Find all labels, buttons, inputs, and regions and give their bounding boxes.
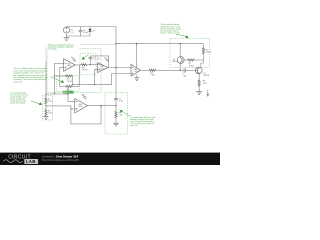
annotation paragraph left 1 (14, 67, 48, 83)
svg-text:0.1 µF: 0.1 µF (94, 59, 100, 61)
wire divider top (45, 94, 47, 98)
annotation box F (integrator stage) (80, 54, 96, 75)
wire OA1 feedback drop (78, 65, 80, 87)
capacitor C7 (182, 68, 195, 77)
svg-text:10 kΩ: 10 kΩ (82, 70, 88, 72)
wire OA1 -in loop down (53, 64, 55, 95)
svg-text:100 Ω: 100 Ω (189, 65, 195, 67)
op-amp OA3 (131, 64, 141, 76)
wire OA2 +in (95, 70, 98, 85)
resistor R3 (149, 69, 183, 77)
svg-text:2N3904: 2N3904 (172, 61, 178, 63)
node divider mid (45, 105, 46, 106)
svg-text:http://circuitlab.com/c6bpe35: http://circuitlab.com/c6bpe35 (42, 158, 79, 162)
resistor R1 (45, 98, 53, 106)
annotation box D (current limiter) (170, 38, 210, 67)
voltage source V1 (63, 27, 74, 34)
capacitor C2 feedback (89, 56, 109, 68)
svg-text:travel safe: travel safe (14, 80, 23, 83)
op-amp OA1 V+ flag (71, 57, 75, 62)
annotation arrow to heater node (120, 110, 131, 117)
annotation label on box A bottom (63, 91, 74, 94)
wire faint left bus (80, 43, 116, 45)
svg-text:10 kΩ: 10 kΩ (48, 101, 53, 103)
wire V1 top (67, 27, 117, 44)
ground below divider (43, 116, 48, 120)
op-amp OA4 (75, 99, 88, 113)
svg-text:2N3904: 2N3904 (203, 75, 209, 77)
ground below R9 (113, 123, 119, 126)
wire V+ rail down to heater RC (115, 44, 117, 97)
annotation box A (oscillator stages) (47, 43, 101, 92)
ground below V1 (64, 36, 70, 40)
svg-text:100 Ω: 100 Ω (206, 52, 212, 54)
wire R5 node down (67, 89, 69, 95)
annotation paragraph bottom (130, 116, 155, 127)
svg-text:10 µF: 10 µF (119, 100, 123, 102)
wire V1 bottom (67, 33, 91, 36)
wire OA1 -in (54, 63, 63, 65)
wire gain node to OA3 +in (73, 74, 131, 85)
op-amp OA2 (98, 63, 108, 73)
wire divider feed (46, 94, 75, 102)
op-amp OA2 V+ flag (105, 57, 109, 61)
svg-text:LF411: LF411 (67, 66, 72, 68)
logo sine wave (4, 160, 23, 163)
svg-text:LAB: LAB (26, 159, 36, 164)
wire OA4 +in loop (71, 106, 101, 124)
resistor R5 (65, 85, 79, 93)
wire divider mid to OA4 + (46, 106, 71, 109)
resistor R9 heater (115, 106, 123, 124)
ground below R8 (196, 92, 202, 95)
annotation box B (feedback resistors) (57, 75, 80, 91)
wire OA3 output (141, 69, 150, 71)
resistor R4 (54, 75, 72, 85)
annotation arrow to box F (82, 55, 89, 60)
wire R5 left (60, 86, 65, 88)
resistor R0 (45, 106, 53, 116)
svg-text:in this loop: in this loop (48, 47, 57, 50)
annotation arrow to R5 box (50, 77, 64, 83)
op-amp OA1 (64, 59, 76, 71)
wire Q1 emitter down (179, 64, 181, 71)
svg-text:heater has settled: heater has settled (10, 102, 25, 105)
logo LAB (24, 159, 38, 164)
wire main bus (116, 43, 204, 45)
svg-text:10 kΩ: 10 kΩ (48, 113, 53, 115)
svg-text:10 Ω: 10 Ω (203, 83, 208, 85)
wire OA3 V+ supply (136, 44, 138, 68)
svg-text:cap is for: cap is for (130, 124, 138, 127)
transistor Q2 (195, 67, 209, 77)
wire OA2 output to OA3 -in (108, 67, 131, 69)
resistor R6 between stages (80, 64, 97, 72)
wire Q1 collector to bus (179, 44, 181, 57)
svg-text:10 µF: 10 µF (83, 32, 89, 34)
wire OA1 output (75, 64, 80, 66)
svg-text:1 kΩ: 1 kΩ (150, 75, 155, 77)
svg-text:10 kΩ: 10 kΩ (67, 81, 73, 83)
node heater junction (115, 105, 116, 106)
footer bar (0, 153, 220, 165)
resistor R2 collector (202, 44, 212, 60)
annotation box C (divider) (43, 96, 53, 120)
annotation arrow to box D (176, 34, 189, 38)
wire OA1 +in (60, 68, 64, 87)
diode D1 (89, 27, 96, 37)
ground below OA3 (134, 75, 139, 81)
capacitor C6 (79, 27, 90, 37)
capacitor C1 heater (114, 97, 123, 106)
arrow flag far right (206, 90, 209, 97)
annotation paragraph left 2 (10, 92, 27, 105)
svg-text:LF411: LF411 (101, 68, 106, 70)
wire down to Q2 collector (201, 60, 204, 67)
annotation box E (heater RC) (105, 93, 128, 134)
wire OA4 output (87, 105, 115, 107)
annotation arrow to divider box (31, 101, 42, 105)
op-amp OA4 V+ flag (82, 94, 86, 99)
svg-text:LF411: LF411 (134, 71, 139, 73)
resistor R7 base (185, 59, 202, 67)
transistor Q1 (172, 56, 185, 63)
svg-text:LF411: LF411 (78, 106, 83, 108)
annotation paragraph top-right (161, 23, 181, 34)
wire divider feed vertical (45, 44, 47, 62)
resistor R8 emitter (198, 74, 207, 92)
node junction at cap branch (90, 64, 91, 65)
